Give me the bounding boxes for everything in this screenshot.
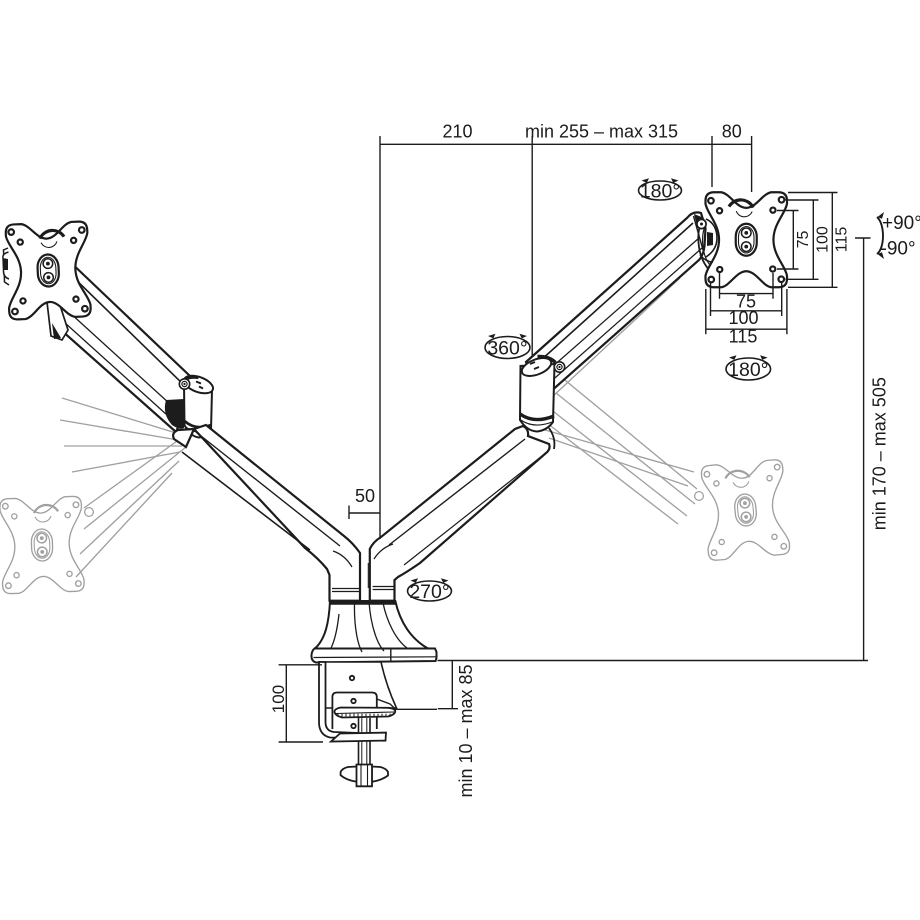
dim 100 clamp [279, 665, 323, 742]
extension line 80-left [711, 136, 713, 187]
rotation label 360 [485, 334, 530, 359]
column collar band [330, 600, 397, 605]
svg-text:115: 115 [834, 227, 851, 253]
right upper arm [526, 212, 706, 401]
dim 50 [349, 506, 380, 520]
desk reference line right [438, 660, 869, 662]
svg-text:-90°: -90° [881, 239, 916, 260]
pedestal bell [315, 601, 428, 652]
ghost trace near right arm [556, 266, 686, 386]
svg-text:270°: 270° [409, 581, 449, 603]
dim min10-max85 [396, 661, 459, 710]
left plate lower link [47, 299, 68, 340]
right plate horizontal dims 75/100/115 [720, 273, 774, 299]
base slab [311, 648, 436, 663]
svg-text:100: 100 [815, 226, 832, 253]
top dimension line [380, 143, 752, 145]
left elbow joint [165, 372, 215, 437]
right forearm [368, 426, 549, 601]
svg-text:min 255 – max 315: min 255 – max 315 [525, 122, 678, 142]
svg-text:180°: 180° [640, 181, 680, 203]
svg-text:min 10 – max 85: min 10 – max 85 [456, 664, 476, 797]
svg-text:360°: 360° [487, 338, 527, 360]
ghost pivot left [85, 508, 94, 517]
ghost swing lines left [84, 431, 191, 508]
svg-text:100: 100 [269, 685, 288, 713]
svg-text:75: 75 [795, 231, 812, 249]
left upper arm [52, 258, 195, 432]
left forearm [173, 425, 360, 601]
extension line 80-right [751, 136, 753, 192]
svg-text:min 170 – max 505: min 170 – max 505 [870, 377, 890, 530]
ghost pivot right [695, 492, 704, 501]
svg-text:115: 115 [729, 327, 758, 347]
svg-text:+90°: +90° [882, 213, 920, 234]
right arm pivot screw [697, 219, 706, 228]
VESA plate left [5, 221, 91, 319]
ghost VESA plate right [701, 459, 790, 561]
left plate side clip [3, 248, 9, 285]
right plate vertical dims 75/100/115 [777, 211, 799, 270]
desk clamp body [319, 662, 397, 786]
right plate hinge housing [694, 214, 711, 272]
svg-text:80: 80 [722, 122, 742, 142]
rotation label 270 [408, 578, 452, 601]
rotation label 180 top [639, 178, 682, 200]
dim min170-max505 vertical [855, 238, 871, 661]
svg-text:100: 100 [728, 308, 758, 328]
extension line middle [531, 136, 533, 356]
right plate hinge [700, 219, 717, 262]
rotation label 180 bottom [726, 355, 771, 380]
extension line left [379, 136, 381, 539]
right elbow joint 360 [519, 354, 564, 449]
svg-text:180°: 180° [728, 359, 768, 381]
svg-text:50: 50 [355, 486, 375, 506]
ghost swing lines right [560, 376, 697, 489]
VESA plate right [706, 192, 788, 287]
tilt arc +90/-90 [877, 212, 884, 259]
svg-text:210: 210 [442, 122, 472, 142]
ghost VESA plate left [0, 496, 84, 594]
